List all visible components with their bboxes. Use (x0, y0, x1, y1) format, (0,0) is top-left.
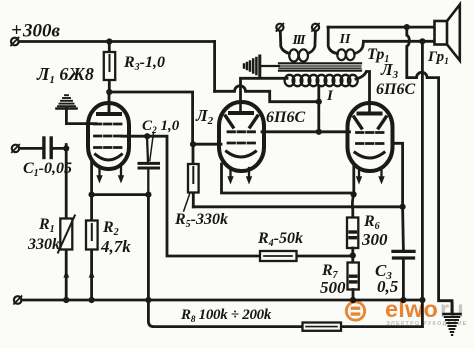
wire R7 bottom (352, 290, 355, 301)
svg-text:R5-330k: R5-330k (174, 211, 228, 230)
node bus right end (419, 297, 425, 303)
tube L1 anode (98, 103, 120, 114)
tube L1 cathode (96, 155, 122, 161)
svg-text:500: 500 (320, 278, 346, 297)
tube L3 heater leads (359, 169, 382, 178)
wire L3 cathode lead (352, 166, 355, 194)
arrow on R2 lead (89, 270, 95, 277)
tube L1 envelope (88, 103, 129, 169)
resistor R6 (347, 218, 358, 249)
node L1 cathode / R2 top (89, 192, 95, 198)
node C3 bottom on bus (400, 297, 406, 303)
pointer line C2 label (150, 134, 154, 161)
wire winding III right lead (308, 31, 315, 54)
wire cathode node to C2 bottom (92, 193, 149, 196)
wire shield stem (65, 109, 68, 124)
wire +300v rail (19, 40, 215, 43)
wire +300v drop right (213, 42, 216, 92)
node R1 bottom on bus (63, 297, 69, 303)
wire anode L1 to grid L2 (109, 92, 192, 144)
tube L3 heater arrows (356, 176, 385, 184)
node R7 bottom on bus (350, 297, 356, 303)
transformer winding III (289, 49, 308, 61)
node L1 anode / R3 bottom (106, 89, 112, 95)
tube L1 heater arrows (96, 175, 124, 183)
resistor R4 (260, 251, 297, 261)
wire feedback tap from top (hops) (407, 27, 452, 314)
node C2 branch on bus (145, 297, 151, 303)
wire R5 bottom to cathode node C3 (193, 205, 402, 208)
terminal ground bus (14, 296, 22, 304)
svg-text:R4-50k: R4-50k (257, 230, 303, 249)
node C3 top / L3 grid / R5 line (400, 204, 406, 210)
transformer winding I (285, 75, 358, 86)
tube L1 grids (95, 124, 123, 148)
wire L1 screen to R4 (left L) (122, 136, 260, 256)
wire secondary bottom to speaker (364, 40, 435, 43)
capacitor C1 (44, 138, 51, 158)
tube L2 envelope (219, 102, 264, 171)
terminal winding III left (276, 24, 283, 31)
resistor R5 (188, 164, 199, 193)
node L2 grid / R5 top (190, 141, 196, 147)
terminal +300v (11, 38, 19, 46)
shield symbol L1 grid (56, 95, 76, 108)
wire R4 right to R6 junction (297, 254, 353, 257)
wire secondary top to speaker (328, 26, 435, 29)
tube L2 heater arrows (227, 176, 252, 184)
svg-text:300в: 300в (22, 21, 61, 42)
tube L2 grids (228, 132, 255, 143)
svg-text:С2 1,0: С2 1,0 (142, 118, 180, 136)
tube L2 anode (230, 102, 252, 113)
wire R8 branch (148, 300, 422, 327)
wire L2 anode to primary (241, 78, 288, 102)
tube L2 beam plates (226, 116, 258, 127)
svg-text:elwo: elwo (385, 296, 438, 322)
svg-text:6П6С: 6П6С (376, 81, 415, 98)
node C2 bottom (145, 192, 151, 198)
resistor R5 leads (192, 144, 195, 207)
wire C2 bottom to ground bus (147, 195, 150, 300)
tube L3 cathode (355, 153, 384, 159)
wire L2 cathode (222, 164, 354, 193)
wire winding I right lead to L3 anode (356, 72, 370, 103)
wire grid L1 (66, 122, 96, 125)
wire L3 grid exit to cathode node (392, 143, 403, 207)
svg-text:III: III (292, 33, 307, 48)
wire grid L2 (193, 143, 221, 146)
ground symbol bottom right (444, 302, 461, 335)
resistor R7 (348, 263, 359, 290)
node R6-R7 junction / R4 (350, 252, 356, 258)
wire C1 to node (53, 147, 66, 150)
wire L1 cathode lead (90, 162, 93, 195)
resistor R8 (303, 323, 342, 331)
transformer core chassis brush (244, 56, 260, 76)
capacitor C3 (393, 251, 414, 258)
resistor R1 (58, 216, 75, 253)
wire grid node vertical to R1 (65, 145, 68, 301)
svg-text:R2: R2 (102, 219, 119, 238)
resistor R3 leads (108, 42, 111, 93)
svg-text:300: 300 (361, 230, 388, 249)
tube L3 grids (357, 133, 384, 144)
wire winding II left lead (328, 27, 337, 53)
pointer line R5 label (184, 194, 190, 212)
arrow on R1 lead (63, 270, 69, 277)
node screens L2-L3 (316, 129, 322, 135)
wire chassis to core (261, 65, 279, 67)
terminal input (12, 145, 19, 153)
svg-text:I: I (326, 88, 334, 104)
svg-text:6П6С: 6П6С (266, 109, 305, 126)
capacitor C3 lead bottom (402, 260, 405, 301)
tube L3 beam plates (354, 117, 386, 128)
svg-text:4,7k: 4,7k (100, 237, 131, 256)
wire winding III left lead (280, 31, 289, 54)
capacitor C2 lead bottom (147, 168, 149, 195)
speaker Gr1 (435, 5, 460, 61)
wire +300v to primary center tap (hop over anode lead) (215, 86, 319, 102)
svg-text:R3-1,0: R3-1,0 (123, 54, 165, 73)
node speaker lower wire tap (419, 38, 425, 44)
wire primary tap to screens (317, 86, 320, 132)
svg-text:+: + (11, 20, 22, 41)
resistor R3 (104, 52, 115, 80)
node C1 / grid leak R1 (63, 145, 69, 151)
terminal winding III right (312, 24, 319, 31)
capacitor C2 lead top (147, 136, 148, 162)
watermark logo circle (346, 302, 364, 320)
tube L3 anode (359, 103, 381, 114)
capacitor C3 lead top (401, 207, 405, 250)
svg-text:С1-0,05: С1-0,05 (23, 160, 72, 179)
capacitor C2 (139, 163, 159, 168)
svg-text:Л1 6Ж8: Л1 6Ж8 (36, 64, 94, 86)
tube L3 envelope (348, 103, 393, 171)
wire R2 branch (90, 195, 93, 300)
node R3 top / +300v rail (106, 38, 112, 44)
transformer winding II (337, 49, 354, 60)
node C2 top / L1 screen (144, 133, 150, 139)
svg-text:330k: 330k (27, 236, 60, 253)
svg-text:Л3: Л3 (380, 60, 399, 81)
svg-text:Гр1: Гр1 (427, 49, 449, 67)
wire R6 top lead (352, 194, 353, 217)
svg-text:R1: R1 (38, 216, 55, 235)
node cathodes L2-L3 / R6 top (351, 191, 357, 197)
node feedback tap on speaker wire (404, 24, 410, 30)
wire input to C1 (19, 147, 42, 150)
svg-text:II: II (339, 32, 352, 47)
watermark elwo (346, 296, 467, 327)
node R2 bottom on bus (89, 297, 95, 303)
wire speaker bottom tap down to R8 (421, 41, 424, 326)
svg-text:Л2: Л2 (195, 106, 214, 127)
transformer core (279, 63, 361, 70)
wire R6-R7 junction (351, 248, 354, 263)
tube L2 cathode (227, 152, 256, 158)
resistor R2 (86, 221, 98, 250)
svg-text:R8 100k ÷ 200k: R8 100k ÷ 200k (180, 307, 272, 325)
wire screens L2-L3 (262, 130, 350, 133)
tube L2 heater leads (231, 168, 250, 177)
node primary tap / +300v (316, 99, 322, 105)
svg-text:0,5: 0,5 (377, 277, 399, 296)
wire L1 anode lead (108, 92, 111, 112)
wire ground bus (22, 299, 423, 302)
tube L1 heater leads (100, 166, 122, 176)
wire winding II right lead (355, 41, 364, 53)
